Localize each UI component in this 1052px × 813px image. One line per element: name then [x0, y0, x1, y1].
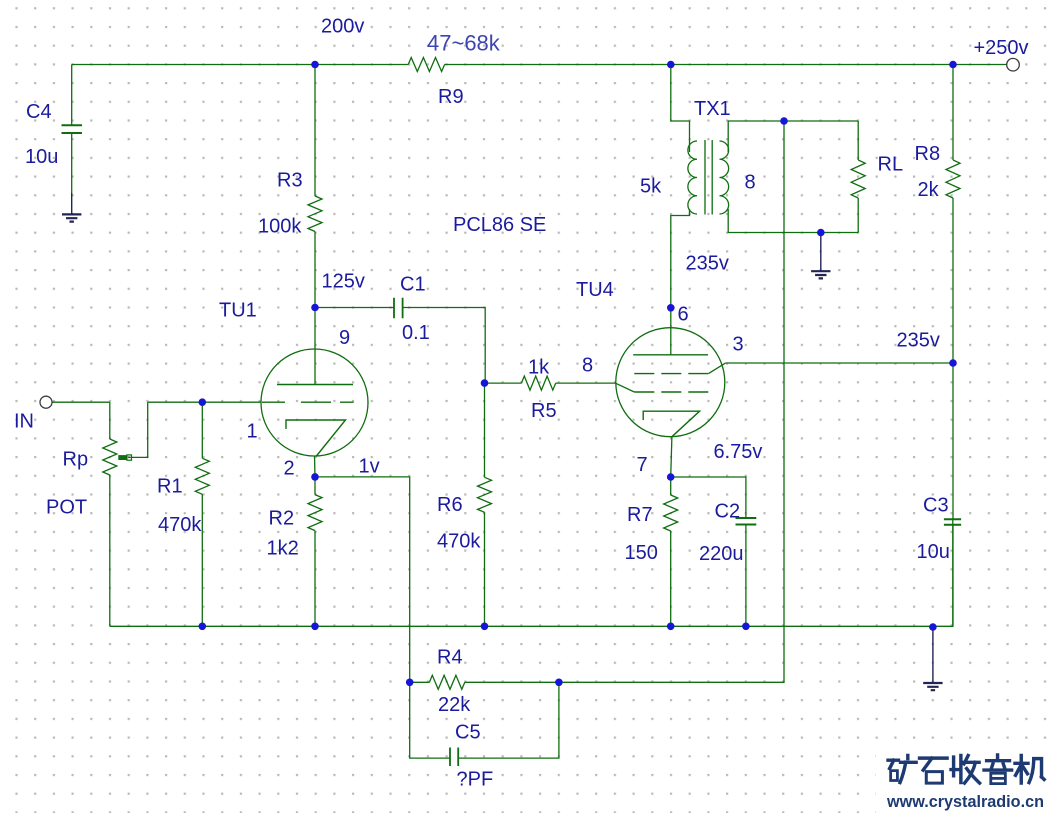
wire R7 leads: [670, 477, 672, 626]
node secondary top: [780, 117, 788, 125]
wire TX primary top lead: [671, 65, 690, 153]
wire TU4 plate lead: [670, 308, 672, 355]
svg-text:10u: 10u: [25, 146, 58, 168]
wire C3 bottom lead: [952, 525, 954, 627]
svg-text:C1: C1: [400, 274, 426, 296]
svg-text:R1: R1: [157, 476, 183, 498]
node TU1 grid: [199, 398, 207, 406]
svg-text:470k: 470k: [437, 531, 481, 553]
tube TU1 anode: [277, 384, 353, 386]
svg-text:RL: RL: [878, 154, 904, 176]
wire bottom ground rail: [110, 519, 953, 626]
svg-text:235v: 235v: [686, 253, 729, 275]
capacitor C3 10u: [944, 519, 961, 525]
svg-text:PCL86 SE: PCL86 SE: [453, 214, 546, 236]
ground C4: [71, 193, 73, 214]
svg-text:R4: R4: [437, 647, 463, 669]
node C1-R6-R5: [481, 379, 489, 387]
watermark char ji: [1015, 756, 1044, 784]
tube TU1 grid: [262, 401, 354, 403]
svg-text:R6: R6: [437, 494, 463, 516]
node rail R6: [481, 623, 489, 631]
svg-text:IN: IN: [14, 410, 34, 432]
svg-text:1k2: 1k2: [267, 538, 299, 560]
node rail ground: [929, 623, 937, 631]
svg-text:220u: 220u: [699, 543, 744, 565]
svg-text:8: 8: [582, 355, 593, 377]
tube TU4 envelope: [616, 328, 725, 437]
node TX primary top: [667, 61, 675, 69]
resistor R1 470k: [195, 458, 209, 494]
capacitor C4 10u: [62, 125, 83, 133]
svg-text:6: 6: [678, 304, 689, 326]
tube TU4 screen grid: [634, 373, 708, 375]
node secondary ground: [817, 229, 825, 237]
svg-text:TU4: TU4: [576, 279, 614, 301]
wire feedback line: [559, 121, 784, 682]
resistor R4 22k: [429, 675, 464, 689]
wire C4 branch: [71, 65, 73, 194]
resistor R2 1k2: [308, 495, 322, 531]
watermark char shi: [920, 758, 948, 783]
transformer TX1 primary winding: [688, 141, 697, 214]
capacitor C1 0.1: [394, 298, 403, 319]
svg-text:22k: 22k: [438, 694, 471, 716]
svg-text:100k: 100k: [258, 216, 302, 238]
tube TU4 anode: [633, 354, 708, 356]
svg-text:R9: R9: [438, 86, 464, 108]
terminal +250v: [1007, 58, 1020, 71]
svg-text:1: 1: [247, 421, 258, 443]
wire TX primary bottom lead: [671, 209, 690, 308]
resistor R3 100k: [308, 196, 322, 232]
wire TU4 cathode lead: [671, 437, 672, 477]
svg-text:Rp: Rp: [63, 449, 89, 471]
svg-text:5k: 5k: [640, 176, 662, 198]
watermark char kuang: [888, 756, 916, 783]
svg-text:R5: R5: [531, 400, 557, 422]
transformer TX1 core: [705, 140, 712, 215]
svg-text:2k: 2k: [918, 179, 940, 201]
svg-text:TU1: TU1: [219, 300, 257, 322]
wire C1 coupling: [315, 308, 485, 384]
wire pot bottom leg: [109, 475, 111, 626]
tube TU1 cathode: [286, 420, 346, 457]
svg-text:0.1: 0.1: [402, 322, 430, 344]
svg-text:9: 9: [339, 327, 350, 349]
wire R6 leads: [484, 383, 486, 626]
tube TU4 cathode: [643, 411, 699, 437]
tube TU4 control grid: [634, 391, 708, 393]
wire input line: [52, 401, 110, 403]
svg-text:3: 3: [733, 334, 744, 356]
svg-text:235v: 235v: [897, 330, 940, 352]
node screen 235v: [949, 359, 957, 367]
svg-text:R3: R3: [277, 170, 303, 192]
transformer TX1 secondary winding: [720, 141, 729, 214]
watermark char shou: [951, 756, 980, 784]
watermark background: [876, 744, 1052, 813]
svg-text:C2: C2: [715, 501, 741, 523]
terminal IN: [40, 396, 52, 408]
svg-text:150: 150: [625, 542, 658, 564]
resistor RL: [851, 160, 865, 198]
svg-text:470k: 470k: [158, 514, 202, 536]
node TU4 plate 235v: [667, 304, 675, 312]
svg-text:POT: POT: [46, 497, 87, 519]
svg-text:1v: 1v: [359, 456, 380, 478]
wire R3 column: [314, 65, 316, 308]
wire C2 branch: [671, 477, 746, 626]
svg-text:8: 8: [745, 172, 756, 194]
capacitor C5 ?PF: [450, 748, 458, 767]
svg-text:www.crystalradio.cn: www.crystalradio.cn: [886, 792, 1044, 811]
wire screen grid line: [725, 362, 953, 364]
resistor R6 470k: [478, 477, 492, 512]
ground main rail: [932, 627, 934, 683]
svg-text:6.75v: 6.75v: [714, 441, 763, 463]
svg-text:C3: C3: [923, 495, 949, 517]
wire 1v feedback tap: [315, 477, 410, 682]
svg-text:C5: C5: [455, 722, 481, 744]
wire TX secondary top lead: [728, 121, 858, 152]
node rail R1: [199, 623, 207, 631]
svg-text:2: 2: [284, 458, 295, 480]
svg-text:C4: C4: [26, 101, 52, 123]
wire R4 leads: [410, 681, 559, 683]
svg-text:TX1: TX1: [694, 98, 731, 120]
wire TX secondary bottom lead: [728, 209, 858, 233]
svg-text:+250v: +250v: [974, 37, 1029, 59]
svg-text:1k: 1k: [528, 357, 550, 379]
wire R5 leads: [485, 382, 616, 384]
potentiometer Rp: [103, 439, 117, 475]
wire TU1 cathode lead: [314, 456, 317, 477]
watermark char yin: [984, 755, 1012, 784]
svg-text:10u: 10u: [917, 541, 950, 563]
node rail R2: [311, 623, 319, 631]
wire pot wiper: [128, 402, 148, 457]
node 125v: [311, 304, 319, 312]
node TU4 cathode: [667, 473, 675, 481]
svg-text:R8: R8: [915, 143, 941, 165]
wire RL leads: [857, 121, 859, 233]
node R4 left: [406, 679, 414, 687]
wire C5 branch: [410, 682, 559, 758]
resistor R5 1k: [521, 376, 555, 390]
svg-text:R2: R2: [269, 508, 295, 530]
svg-text:7: 7: [637, 454, 648, 476]
svg-text:200v: 200v: [321, 15, 364, 37]
node rail R7: [667, 623, 675, 631]
wire R1 leads: [201, 402, 203, 626]
wire pot top leg: [109, 402, 111, 439]
node R8 top: [949, 61, 957, 69]
node TU1 cathode: [311, 473, 319, 481]
resistor R7 150: [664, 495, 678, 531]
capacitor C2 220u: [736, 518, 757, 525]
resistor R9 47~68k: [408, 58, 444, 72]
wire top supply rail: [72, 64, 409, 66]
resistor R8 2k: [946, 160, 960, 198]
svg-text:R7: R7: [627, 504, 653, 526]
wire TU1 plate lead: [314, 308, 316, 385]
ground TX secondary: [820, 233, 822, 272]
node R4 right: [555, 679, 563, 687]
node 200v rail: [311, 61, 319, 69]
svg-text:?PF: ?PF: [457, 769, 494, 791]
svg-text:125v: 125v: [322, 271, 365, 293]
svg-text:47~68k: 47~68k: [427, 31, 501, 56]
wire R2 leads: [314, 477, 316, 626]
node rail C2: [742, 623, 750, 631]
wire R8 column: [952, 65, 954, 520]
tube TU1 envelope: [261, 349, 368, 456]
